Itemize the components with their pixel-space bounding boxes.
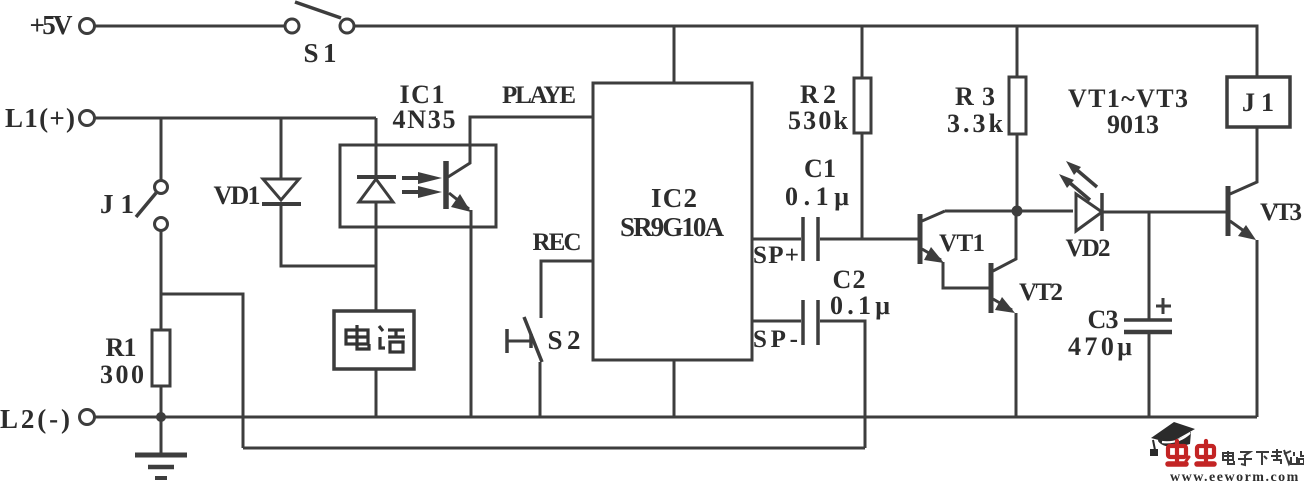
svg-text:SP-: SP- [753,326,798,353]
svg-text:VT3: VT3 [1260,199,1302,226]
svg-text:3.3k: 3.3k [947,109,1004,138]
svg-text:J1: J1 [1242,88,1274,117]
svg-text:300: 300 [100,360,144,389]
svg-text:R1: R1 [106,333,137,362]
svg-text:SR9G10A: SR9G10A [620,212,725,242]
svg-text:9013: 9013 [1107,110,1159,139]
svg-text:VD1: VD1 [214,181,261,210]
svg-text:VD2: VD2 [1066,235,1111,262]
svg-text:L1(+): L1(+) [5,103,75,133]
svg-text:+5V: +5V [30,10,74,40]
svg-text:VT1~VT3: VT1~VT3 [1068,84,1188,113]
svg-text:REC: REC [533,229,582,256]
svg-text:PLAYE: PLAYE [502,82,576,109]
svg-text:4N35: 4N35 [393,105,456,134]
svg-text:S1: S1 [304,38,337,68]
svg-text:C2: C2 [833,265,866,294]
svg-text:J1: J1 [100,189,134,219]
svg-text:SP+: SP+ [753,242,799,269]
svg-text:S2: S2 [548,325,581,355]
svg-text:0.1μ: 0.1μ [830,291,890,320]
svg-text:R3: R3 [955,82,995,111]
svg-text:C3: C3 [1088,305,1119,334]
svg-text:IC2: IC2 [651,183,697,213]
svg-text:470μ: 470μ [1068,332,1132,361]
svg-text:R2: R2 [800,80,836,109]
svg-text:VT2: VT2 [1019,279,1063,306]
svg-text:L2(-): L2(-) [0,404,70,434]
svg-text:530k: 530k [788,106,849,135]
svg-text:VT1: VT1 [939,230,985,257]
svg-text:0.1μ: 0.1μ [785,182,849,211]
svg-text:www.eeworm.com: www.eeworm.com [1170,470,1300,481]
svg-text:C1: C1 [804,154,836,183]
